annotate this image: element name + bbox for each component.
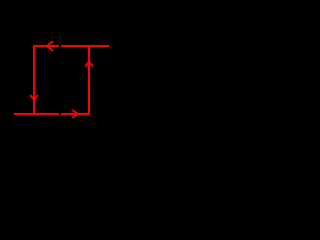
wire right vertical (rising transition): [88, 45, 90, 115]
arrow up (direction arrow on right vertical): [85, 62, 93, 67]
wire top horizontal (upper branch of hysteresis loop): [33, 45, 109, 47]
wire bottom horizontal (lower branch of hysteresis loop): [14, 113, 90, 115]
arrow left (direction arrow on top branch): [47, 41, 53, 51]
arrow down (direction arrow on left vertical): [30, 95, 37, 100]
wire left vertical (falling transition): [33, 45, 35, 115]
node axis-crossing gap on bottom branch: [59, 112, 61, 116]
arrow right (direction arrow on bottom branch): [72, 110, 78, 118]
node axis-crossing gap on top branch: [59, 44, 61, 48]
